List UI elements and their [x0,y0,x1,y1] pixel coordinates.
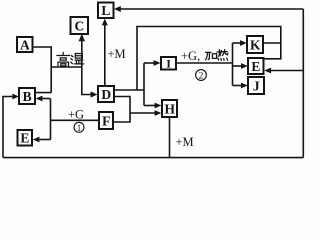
wire vertical x82 to C and down to D [82,40,92,95]
wire right side into E right [270,70,303,72]
svg-text:+G: +G [68,108,84,122]
box A [17,37,33,52]
wire D upper output [114,89,144,91]
wire top line into L [120,8,304,10]
wire bracket into J [233,85,243,87]
wire 高温 underline to C/D vertical [51,66,83,68]
svg-text:K: K [250,38,261,53]
svg-text:H: H [164,102,175,117]
arrow into L from below [102,19,108,26]
wire bottom feedback line [3,157,303,159]
feedback left vertical with arrow into B [3,97,14,158]
wire into I [144,62,155,64]
svg-text:+G,: +G, [181,49,200,63]
box E left [18,130,33,146]
svg-text:1: 1 [77,123,82,133]
wire F->B/E branch vertical x50.5 [50,99,52,140]
svg-text:E: E [251,59,260,74]
wire A to junction [33,46,52,48]
svg-text:+M: +M [176,135,194,149]
wire D up to L (+M) [104,23,106,86]
wire into H lower [130,112,156,114]
svg-text:C: C [75,19,85,34]
label 加 of 加热 [206,52,217,59]
wire vertical x144 I/H feeds [143,63,145,106]
wire K output joins vertical [263,42,281,44]
wire H down to bottom line (+M) [169,117,171,158]
wire vertical junction x51 (A down, B up, to 高温 line) [50,46,52,92]
arrow into C [79,34,85,41]
arrow into B from left [12,94,18,100]
wire F to branch (+G ①) [51,119,100,121]
arrow into D [91,91,98,97]
wire up x137 to top path to K/E right column [137,27,281,91]
box L [98,3,114,19]
svg-text:F: F [102,114,110,129]
wire bracket into E right [233,65,243,67]
box D [98,86,114,102]
wire bracket vertical x232.5 [232,43,234,86]
arrow into L from right [114,6,121,12]
box B [19,88,35,104]
svg-text:+M: +M [108,47,126,61]
wire B output to junction [35,92,51,94]
box I [161,56,176,70]
label ① circled 1 [74,122,84,133]
box K [247,36,263,53]
label 高温 (high temperature) glyph 高 [57,53,70,67]
svg-text:A: A [20,37,30,52]
box F [99,112,113,129]
label ② circled 2 [196,70,207,82]
svg-text:D: D [101,87,111,102]
svg-text:J: J [253,79,260,94]
box C [71,17,89,34]
wire into H upper [144,105,156,107]
label 热 of 加热 [217,50,228,61]
box H [162,100,177,117]
wire into E-left [38,139,51,141]
box E right [248,58,264,74]
svg-text:E: E [20,131,29,146]
wire I output to bracket [176,62,233,64]
label 高温 glyph 温 [71,54,84,64]
svg-text:B: B [23,89,32,104]
svg-text:2: 2 [199,72,204,82]
wire right feedback vertical [302,9,304,158]
wire into B from right [41,98,51,100]
wire F right + D lower merge, vertical x130 [113,97,130,123]
wire bracket into K [233,42,242,44]
box J [248,77,264,94]
svg-text:I: I [166,56,171,70]
svg-text:L: L [101,3,110,18]
